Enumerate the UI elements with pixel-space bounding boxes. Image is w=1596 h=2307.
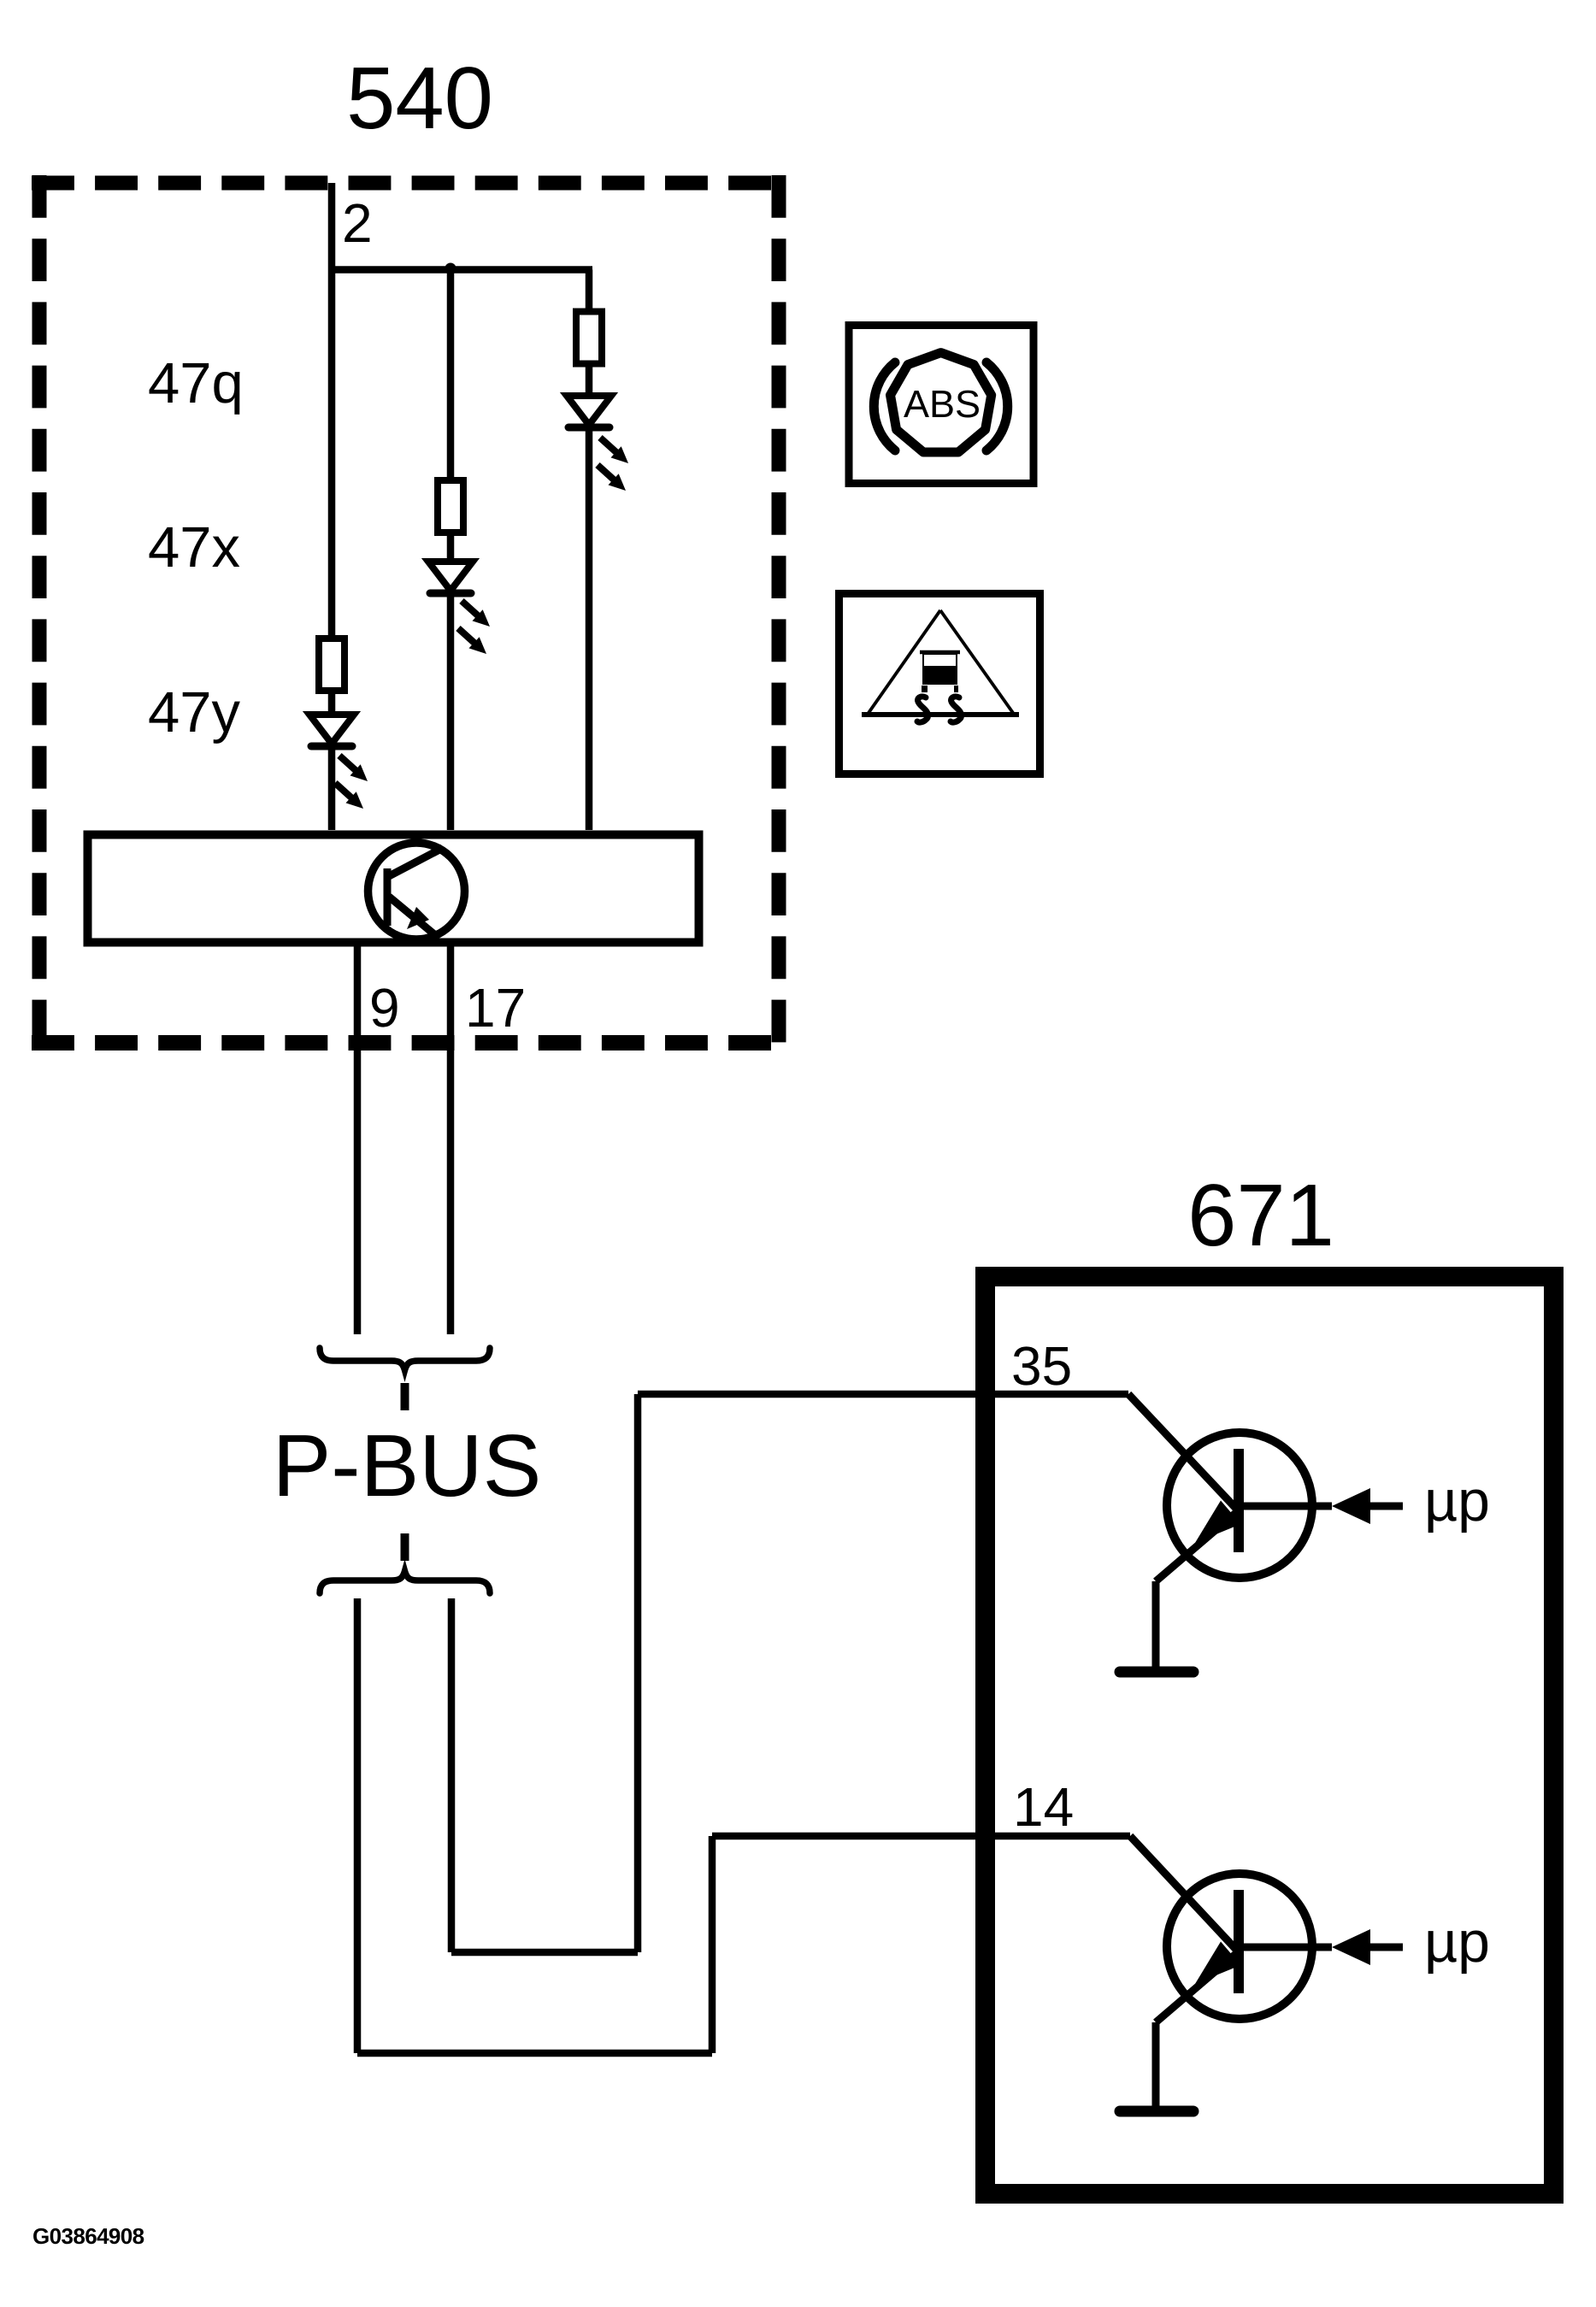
- pin 14 label: [1013, 1776, 1074, 1838]
- transistor Q2 circle: [1167, 1874, 1312, 2019]
- microprocessor input arrow Q2: [1239, 1929, 1403, 1965]
- transistor Q2 emitter: [1156, 1942, 1241, 2023]
- pin 2 label: [342, 192, 373, 254]
- svg-text:µp: µp: [1424, 1468, 1490, 1533]
- wire bus horizontal from pin 2: [332, 266, 592, 274]
- svg-text:ABS: ABS: [904, 382, 981, 426]
- box 540 dashed border top: [32, 176, 786, 191]
- transistor Q1 base bar: [1234, 1449, 1244, 1552]
- wire branch 47x vertical: [447, 270, 455, 831]
- box 540 dashed border bottom: [32, 1035, 786, 1051]
- label 47x: [148, 515, 240, 580]
- voltage stabilizer symbol circle: [368, 843, 465, 939]
- transistor Q1 emitter: [1156, 1501, 1241, 1582]
- document number: [32, 2223, 144, 2249]
- ground Q1: [1120, 1581, 1193, 1672]
- ground Q2: [1120, 2022, 1193, 2111]
- label 47y: [148, 680, 241, 744]
- LED light arrows 47q: [598, 438, 628, 491]
- svg-text:47x: 47x: [148, 515, 240, 580]
- LED diode 47y: [309, 715, 354, 746]
- wire riser 14 up: [709, 1836, 716, 2053]
- microprocessor input arrow Q1: [1239, 1488, 1403, 1524]
- wire riser 35 up: [634, 1394, 642, 1952]
- transistor Q2 base bar: [1234, 1890, 1244, 1993]
- voltage stabilizer bar: [384, 868, 392, 926]
- slippery road warning icon box: [839, 594, 1040, 774]
- resistor 47q: [576, 312, 602, 364]
- truck wheel left: [922, 686, 928, 692]
- wire branch 47q vertical: [586, 270, 593, 831]
- wire pin 2 / branch 47y vertical: [328, 183, 336, 830]
- label microprocessor Q2: [1424, 1910, 1490, 1974]
- P-BUS dashed link upper: [401, 1383, 409, 1410]
- warning triangle right side: [940, 610, 1013, 713]
- ABS icon right paren: [986, 362, 1008, 450]
- truck wheel right: [954, 686, 958, 692]
- resistor 47x: [438, 480, 463, 533]
- P-BUS lower brace: [320, 1571, 490, 1593]
- wire pin 17 to connector: [447, 943, 455, 1334]
- P-BUS upper brace: [320, 1348, 490, 1370]
- voltage stabilizer emitter arrow: [407, 907, 429, 929]
- LED light arrows 47x: [458, 601, 490, 654]
- truck cab outline: [923, 654, 957, 684]
- label 47q: [148, 351, 244, 415]
- box 540 dashed border right: [772, 175, 786, 1051]
- pin 17 label: [465, 977, 526, 1039]
- ABS icon left paren: [874, 362, 895, 450]
- pin 35 label: [1011, 1335, 1072, 1397]
- wire P-BUS left down: [354, 1598, 362, 2053]
- LED diode 47x: [428, 562, 473, 593]
- label microprocessor Q1: [1424, 1468, 1490, 1533]
- svg-text:9: 9: [369, 977, 400, 1039]
- junction middle branch: [445, 263, 456, 274]
- wire bottom horizontal to riser 35: [451, 1949, 638, 1957]
- ABS icon text: [904, 382, 981, 426]
- warning triangle left side: [869, 610, 940, 713]
- svg-text:47q: 47q: [148, 351, 244, 415]
- wire P-BUS right down: [448, 1598, 456, 1952]
- box 540 dashed border left: [32, 175, 47, 1051]
- wire pin 35 horizontal: [638, 1391, 1128, 1398]
- wire bottom horizontal to riser 14: [357, 2050, 712, 2057]
- svg-text:P-BUS: P-BUS: [273, 1416, 542, 1515]
- svg-text:14: 14: [1013, 1776, 1074, 1838]
- pin 9 label: [369, 977, 400, 1039]
- svg-text:2: 2: [342, 192, 373, 254]
- skid mark left: [917, 697, 928, 722]
- voltage stabilizer emitter diagonal: [389, 897, 434, 934]
- P-BUS dashed link lower: [401, 1533, 409, 1561]
- warning triangle base: [862, 712, 1019, 717]
- svg-text:540: 540: [346, 49, 493, 147]
- LED light arrows 47y: [335, 756, 368, 809]
- svg-text:47y: 47y: [148, 680, 241, 744]
- label 671 (DICE control module): [1187, 1166, 1334, 1264]
- P-BUS label: [273, 1416, 542, 1515]
- wire pin 35 diagonal to transistor Q1: [1128, 1394, 1239, 1511]
- svg-text:G03864908: G03864908: [32, 2223, 144, 2249]
- gauge module rectangle: [88, 835, 699, 943]
- wire pin 9 to connector: [354, 943, 362, 1334]
- wire pin 14 horizontal: [712, 1833, 1130, 1840]
- ABS icon drum octagon: [891, 353, 992, 452]
- resistor 47y: [319, 639, 345, 691]
- ABS warning lamp icon box: [849, 326, 1034, 484]
- transistor Q1 circle: [1167, 1433, 1312, 1578]
- box 671 border: [986, 1277, 1554, 2194]
- label 540 (instrument cluster): [346, 49, 493, 147]
- truck roof line: [920, 650, 960, 655]
- truck body fill: [923, 666, 957, 685]
- voltage stabilizer collector diagonal: [389, 848, 443, 876]
- LED diode 47q: [567, 396, 611, 427]
- skid mark right: [951, 697, 962, 722]
- svg-text:671: 671: [1187, 1166, 1334, 1264]
- svg-text:µp: µp: [1424, 1910, 1490, 1974]
- svg-text:35: 35: [1011, 1335, 1072, 1397]
- wire pin 14 diagonal to transistor Q2: [1130, 1836, 1239, 1952]
- svg-text:17: 17: [465, 977, 526, 1039]
